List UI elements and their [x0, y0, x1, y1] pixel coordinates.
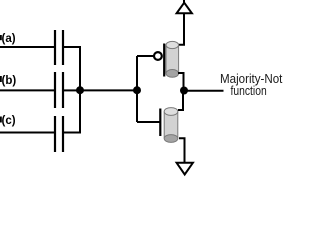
clipped glyph left edge row b: [0, 76, 2, 82]
wire c to bus: [64, 132, 80, 134]
VDD symbol triangle: [177, 3, 192, 14]
VDD stub: [183, 0, 185, 4]
capacitor Cb: [55, 72, 63, 108]
ground symbol triangle: [177, 163, 193, 175]
wire b to bus: [64, 89, 80, 91]
junction output node: [180, 87, 188, 95]
wire input c left: [0, 132, 54, 134]
wire summing bus: [79, 46, 81, 134]
wire a to bus: [64, 46, 80, 48]
clipped glyph left edge row c: [0, 117, 2, 123]
wire gate bus vertical: [136, 56, 138, 122]
clipped glyph left edge row a: [0, 35, 2, 40]
NMOS gate bar: [159, 109, 161, 137]
wire output: [184, 90, 224, 92]
label (a): [2, 33, 16, 45]
label (c): [2, 115, 16, 127]
wire node A to gate node: [80, 89, 137, 91]
wire PMOS drain to output node: [178, 73, 184, 90]
wire NMOS gate: [137, 121, 160, 123]
capacitor Cc: [55, 116, 63, 152]
PMOS gate bar: [163, 44, 165, 77]
PMOS gate bubble: [154, 52, 162, 60]
svg-text:function: function: [231, 83, 267, 98]
output label Majority-Not function: [220, 71, 283, 98]
junction node A: [76, 86, 84, 94]
label (b): [2, 75, 17, 87]
transistor Q2 NMOS channel cylinder: [164, 108, 178, 143]
transistor Q1 PMOS channel cylinder: [166, 41, 179, 77]
wire PMOS gate: [137, 55, 154, 57]
wire output node to NMOS drain: [178, 91, 183, 110]
wire VDD to PMOS source: [178, 14, 184, 45]
wire input b left: [0, 89, 54, 91]
svg-text:(a): (a): [2, 33, 16, 45]
junction gate node: [133, 86, 141, 94]
wire input a left: [0, 46, 54, 48]
capacitor Ca: [55, 30, 63, 65]
svg-text:(c): (c): [2, 115, 16, 127]
svg-text:(b): (b): [2, 75, 17, 87]
wire NMOS source to ground: [179, 138, 185, 162]
